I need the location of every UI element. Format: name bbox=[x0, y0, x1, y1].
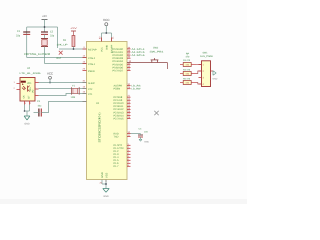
wire rail bbox=[27, 26, 58, 28]
svg-text:GND: GND bbox=[103, 195, 109, 198]
no connect cross bbox=[154, 111, 158, 115]
pin 5 U2 bbox=[35, 86, 39, 89]
ground C4 bbox=[139, 139, 149, 143]
pin 1 U2 bbox=[14, 81, 21, 84]
svg-text:CK: CK bbox=[23, 95, 26, 99]
svg-text:12M: 12M bbox=[71, 96, 76, 99]
pin RST bbox=[84, 46, 98, 52]
capacitor C2 bbox=[41, 31, 55, 38]
switch SW2 bbox=[151, 58, 159, 62]
svg-text:R5 470: R5 470 bbox=[183, 78, 191, 81]
net labels P0.0-P0.2 bbox=[132, 48, 146, 57]
wire XTAL1 bbox=[45, 63, 87, 65]
svg-text:XT1: XT1 bbox=[88, 93, 93, 96]
switch SW2 wire bbox=[127, 63, 167, 70]
svg-text:RST/VP: RST/VP bbox=[88, 49, 97, 52]
wire XTL2 row bbox=[39, 88, 87, 90]
svg-text:XTAL2: XTAL2 bbox=[88, 57, 96, 60]
junction bbox=[49, 82, 51, 84]
phototransistor bbox=[27, 86, 29, 92]
svg-text:10K_UP: 10K_UP bbox=[57, 44, 68, 47]
svg-text:VD+: VD+ bbox=[29, 86, 32, 91]
svg-text:VSS: VSS bbox=[106, 173, 109, 178]
pin 6 U2 bbox=[35, 93, 39, 96]
capacitor C4 bbox=[131, 128, 149, 140]
svg-text:RST: RST bbox=[57, 57, 62, 60]
power +5V top-left bbox=[42, 15, 48, 20]
pin 4 U2 bbox=[35, 80, 39, 83]
wire left cap branch bbox=[26, 27, 28, 58]
node VCC left bbox=[47, 72, 53, 83]
capacitor C3 bbox=[37, 100, 42, 117]
pin PSEN bbox=[83, 68, 95, 74]
svg-text:VCC: VCC bbox=[47, 72, 53, 76]
power +5V above R1 bbox=[70, 27, 77, 36]
light arrows bbox=[23, 86, 25, 88]
wire cap to crystal bbox=[44, 34, 46, 38]
pins P3 group bbox=[127, 145, 131, 166]
svg-text:PSEN: PSEN bbox=[88, 70, 95, 73]
wire ALE row bbox=[38, 82, 87, 84]
wire C3 left lead bbox=[34, 112, 39, 114]
pins ALE/PSEN group bbox=[127, 86, 131, 89]
pin XTL1 label bbox=[83, 91, 94, 96]
crystal Y2 bbox=[41, 39, 48, 47]
ground U2 bbox=[24, 116, 30, 126]
svg-text:+5V: +5V bbox=[42, 15, 47, 18]
pin XTAL1 bbox=[83, 61, 96, 67]
pin 31 stub bbox=[111, 38, 113, 42]
svg-text:GND: GND bbox=[24, 123, 30, 126]
optocoupler U2 bbox=[20, 67, 42, 101]
svg-text:GND: GND bbox=[213, 78, 218, 81]
svg-text:GND: GND bbox=[144, 141, 149, 144]
node VCC top bbox=[103, 18, 110, 26]
svg-text:R3 470: R3 470 bbox=[183, 59, 191, 62]
crystal Y1 bbox=[71, 84, 80, 99]
pin 3 U2 bottom bbox=[25, 101, 27, 105]
svg-text:XT2: XT2 bbox=[88, 88, 93, 91]
svg-text:CRYSTAL_11.0592M: CRYSTAL_11.0592M bbox=[24, 53, 51, 56]
svg-text:VO: VO bbox=[32, 89, 35, 93]
svg-text:XTAL1: XTAL1 bbox=[88, 63, 96, 66]
pin XTL2 label bbox=[83, 86, 94, 91]
svg-text:P0.7/AD7: P0.7/AD7 bbox=[113, 69, 124, 72]
svg-text:LD_RW: LD_RW bbox=[132, 88, 142, 91]
pin XTAL2 bbox=[83, 55, 96, 61]
wire XTL1 row bbox=[39, 94, 87, 96]
svg-text:R4 470: R4 470 bbox=[183, 69, 191, 72]
header pins bbox=[199, 65, 202, 85]
junction bbox=[44, 26, 46, 28]
header SW1 bbox=[202, 61, 211, 87]
svg-text:+5V: +5V bbox=[70, 27, 77, 30]
junction bbox=[73, 48, 75, 50]
pin 3b U2 bottom bbox=[30, 101, 32, 105]
net labels ALE/PSEN rows bbox=[132, 84, 142, 90]
svg-text:SW_PB1: SW_PB1 bbox=[150, 51, 165, 54]
ground header bbox=[213, 71, 218, 81]
svg-text:ALE/P: ALE/P bbox=[88, 82, 95, 85]
wire bottom gnd bbox=[105, 180, 107, 183]
wire header pin2 gnd bbox=[211, 70, 214, 72]
svg-text:SW1: SW1 bbox=[203, 52, 209, 55]
chip bottom GND pins bbox=[101, 172, 109, 178]
resistor R3 bbox=[180, 59, 196, 67]
junction bbox=[105, 32, 107, 34]
pin 2 U2 bbox=[14, 87, 21, 90]
svg-text:VD1: VD1 bbox=[27, 82, 32, 85]
svg-text:RP: RP bbox=[186, 53, 190, 56]
resistor R1 bbox=[57, 36, 75, 47]
svg-text:STC89C52RC(40-I): STC89C52RC(40-I) bbox=[98, 113, 102, 143]
wire C3 to chip bbox=[41, 102, 86, 113]
wire U2 bottom to gnd bbox=[25, 105, 30, 117]
svg-text:TXD: TXD bbox=[114, 135, 119, 138]
wire R1 to RST bbox=[73, 47, 75, 50]
resistor R5 bbox=[180, 78, 196, 85]
svg-text:A1.1/D.4: A1.1/D.4 bbox=[132, 48, 146, 51]
svg-text:LD_RS: LD_RS bbox=[132, 84, 142, 87]
sheet bottom border bbox=[0, 199, 247, 204]
svg-text:VCC: VCC bbox=[101, 47, 104, 52]
wires resistors to header bbox=[196, 65, 202, 85]
wire XTAL2 bbox=[27, 57, 87, 59]
pin ALE bbox=[83, 80, 96, 86]
svg-text:22p: 22p bbox=[16, 34, 21, 37]
svg-text:A1.2/D.5: A1.2/D.5 bbox=[132, 51, 146, 54]
wire RST bbox=[59, 48, 87, 50]
svg-text:PSEN: PSEN bbox=[114, 88, 121, 91]
chip U1 body bbox=[87, 42, 128, 180]
junction bbox=[24, 110, 26, 112]
ground chip bbox=[103, 189, 109, 199]
svg-text:VCC: VCC bbox=[103, 18, 110, 22]
svg-text:22p: 22p bbox=[50, 35, 55, 38]
pins P2 group bbox=[127, 97, 131, 118]
svg-text:ALS_PS08: ALS_PS08 bbox=[200, 55, 213, 58]
pins INT group bbox=[127, 134, 131, 137]
capacitor C1 bbox=[16, 30, 30, 37]
wire power drop bbox=[44, 20, 46, 32]
right side pins group P0 bbox=[127, 49, 131, 71]
junction bbox=[105, 183, 107, 185]
svg-text:LTE_8L_4N35: LTE_8L_4N35 bbox=[20, 72, 42, 75]
svg-text:GND: GND bbox=[101, 172, 104, 178]
no-ERC cross bbox=[59, 51, 63, 55]
svg-text:P2.7/A15: P2.7/A15 bbox=[114, 117, 125, 120]
LED inside bbox=[21, 81, 26, 83]
wire right branch down bbox=[57, 27, 59, 48]
wire crystal bottom lead bbox=[44, 47, 46, 64]
svg-text:P1.7: P1.7 bbox=[114, 165, 120, 168]
svg-text:SW2: SW2 bbox=[153, 47, 159, 50]
pin 40 stub bbox=[101, 38, 103, 42]
svg-text:A1.3/D.6: A1.3/D.6 bbox=[132, 54, 146, 57]
svg-text:GND: GND bbox=[105, 45, 108, 50]
wire VCC to pins 40/31 bbox=[102, 26, 112, 42]
resistor R4 bbox=[180, 69, 196, 76]
left pin stubs bbox=[83, 49, 87, 102]
